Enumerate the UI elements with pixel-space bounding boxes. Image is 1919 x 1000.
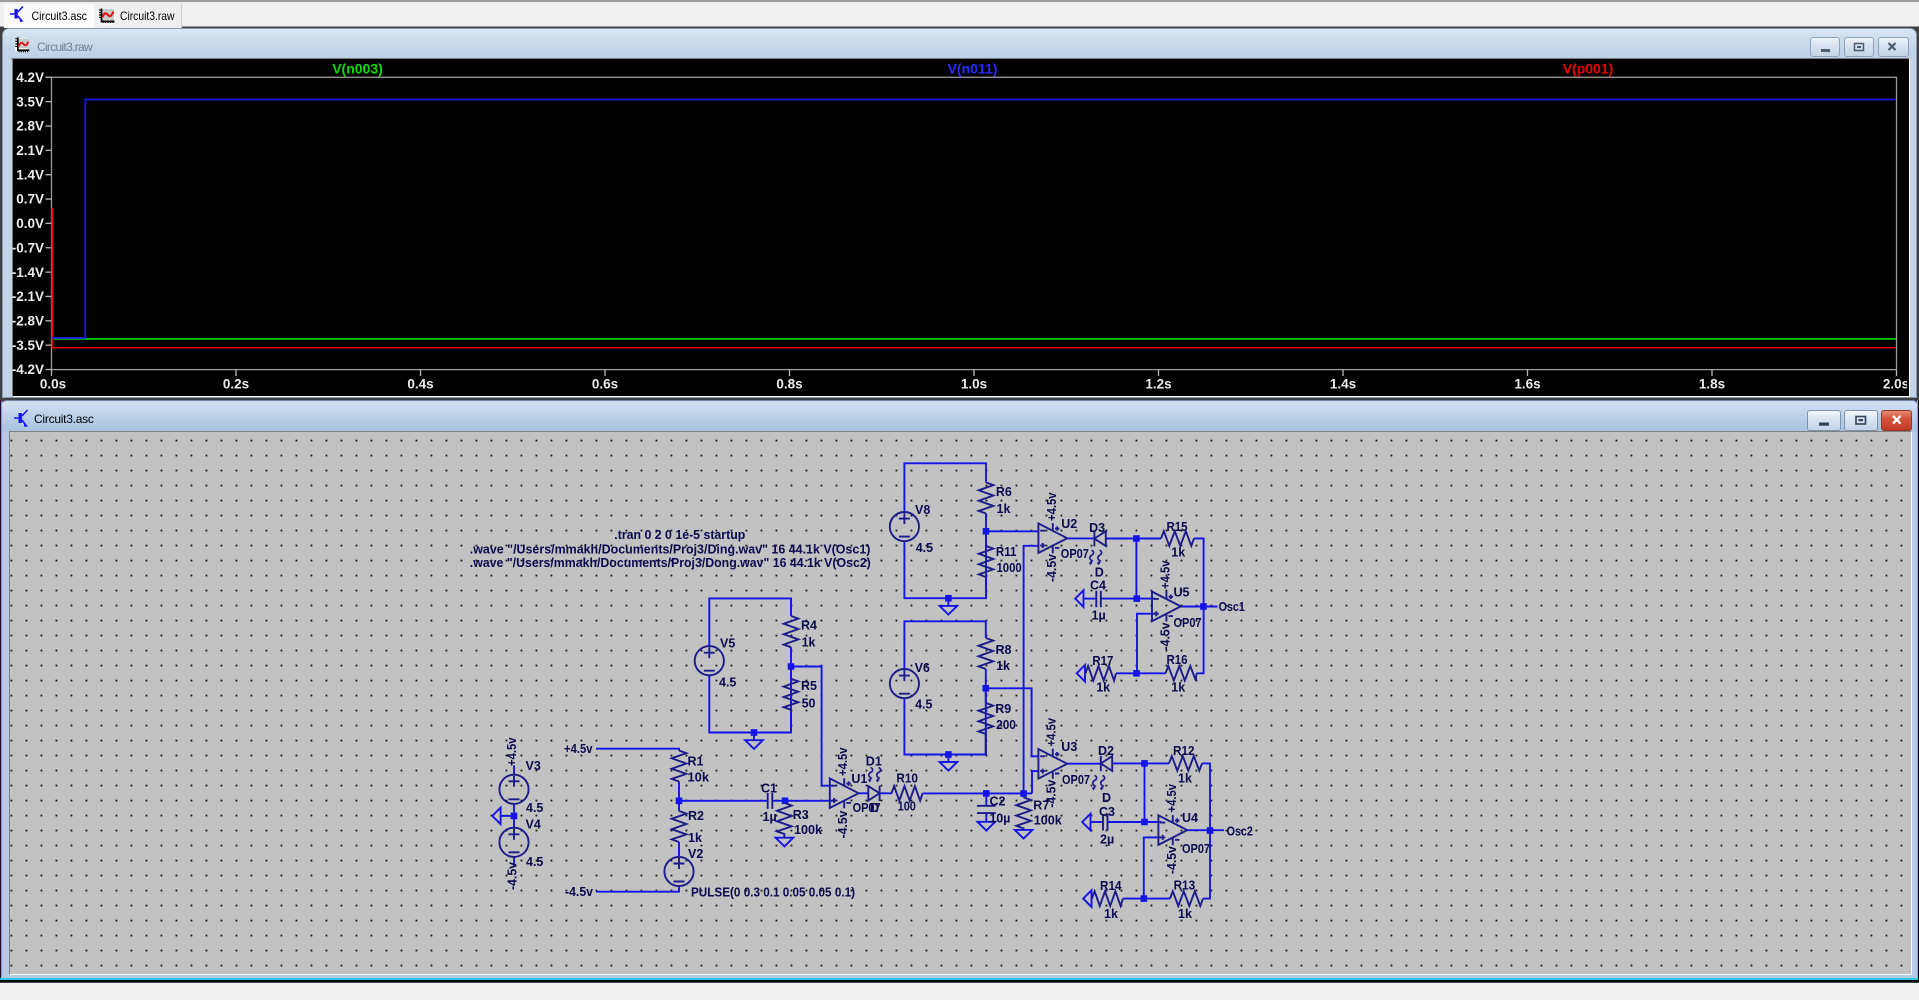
svg-text:-4.5v: -4.5v [1165, 846, 1179, 874]
voltage source V4 [499, 828, 528, 857]
svg-text:R17: R17 [1092, 654, 1113, 668]
diode D3 indicator arrows [1089, 550, 1101, 565]
svg-text:C1: C1 [761, 782, 777, 796]
svg-text:1k: 1k [1171, 546, 1185, 560]
svg-text:1.0s: 1.0s [961, 377, 987, 392]
y tick marks [46, 77, 52, 369]
svg-text:1k: 1k [1096, 681, 1110, 695]
svg-text:U3: U3 [1061, 740, 1077, 754]
svg-text:0.2s: 0.2s [223, 377, 249, 392]
node V5 gnd [751, 729, 758, 736]
wire V6 loop [904, 621, 985, 762]
wire V2 bottom to -4.5v label [596, 886, 679, 892]
wire main to U3 plus [1032, 771, 1038, 793]
svg-text:2µ: 2µ [1100, 833, 1114, 847]
svg-text:0.0V: 0.0V [16, 216, 44, 231]
wire R11 leads [985, 531, 987, 598]
wire D1 to R10 [880, 792, 892, 794]
wire V3 V4 junction [513, 804, 515, 828]
resistor R10 [892, 786, 923, 801]
wire U4 plus drop [1144, 837, 1161, 898]
wire node to C1 [679, 800, 768, 802]
svg-text:Circuit3.asc: Circuit3.asc [32, 9, 88, 23]
svg-text:V6: V6 [915, 661, 930, 675]
svg-text:-4.2V: -4.2V [12, 362, 44, 377]
svg-text:D: D [1095, 566, 1104, 580]
ground V8 loop [940, 606, 958, 615]
svg-text:1.4V: 1.4V [16, 167, 44, 182]
wire R6 R11 node to U2 minus [986, 530, 1038, 532]
svg-text:R16: R16 [1167, 653, 1188, 667]
resistor R16 [1166, 666, 1197, 681]
wire node B to U1 plus input [785, 800, 833, 802]
wire V4 bottom stub [513, 857, 515, 867]
port arrow R14 [1083, 890, 1091, 907]
node R17 R16 [1133, 670, 1140, 677]
tab2 waveform icon [99, 9, 115, 25]
svg-text:Circuit3.raw: Circuit3.raw [120, 9, 175, 23]
svg-text:R3: R3 [793, 808, 809, 822]
plot pane separator lines [11, 58, 1907, 60]
svg-text:V5: V5 [720, 637, 735, 651]
ground V6 loop [940, 762, 958, 771]
svg-text:R11: R11 [996, 545, 1017, 559]
wire main line [986, 792, 1032, 794]
svg-text:D1: D1 [866, 755, 882, 769]
resistor R17 [1086, 666, 1117, 681]
schematic SVG [9, 431, 1909, 972]
wire R9 leads [985, 688, 987, 754]
wire D2 node down to C3 node [1144, 763, 1146, 822]
resistor R15 [1161, 531, 1194, 546]
wire R8 R9 node to U3 minus [986, 688, 1039, 756]
svg-text:1k: 1k [997, 502, 1011, 516]
svg-text:V(p001): V(p001) [1563, 60, 1614, 76]
svg-text:-4.5v: -4.5v [506, 862, 520, 890]
capacitor C4 [1096, 591, 1101, 608]
svg-text:R9: R9 [995, 702, 1011, 716]
node V3 V4 port [511, 813, 518, 820]
wire R10 to main node [923, 792, 987, 794]
wire C4 arrow lead [1084, 598, 1097, 600]
resistor R4 [784, 616, 799, 647]
wire C2 top stub [985, 793, 987, 805]
svg-text:R5: R5 [801, 679, 817, 693]
svg-text:1k: 1k [996, 659, 1010, 673]
svg-text:.tran 0 2 0 1e-5 startup: .tran 0 2 0 1e-5 startup [614, 528, 745, 542]
svg-text:V3: V3 [526, 759, 541, 773]
svg-text:R8: R8 [996, 643, 1012, 657]
svg-text:1k: 1k [1178, 907, 1192, 921]
wire R2 leads [678, 801, 680, 857]
svg-text:OP07: OP07 [1182, 842, 1210, 856]
svg-text:V8: V8 [915, 503, 930, 517]
voltage source V6 [890, 669, 919, 698]
svg-text:+4.5v: +4.5v [1045, 718, 1059, 747]
node Osc2 out [1207, 827, 1214, 834]
wire R14 row [1092, 898, 1144, 900]
Circuit3.raw window [2, 28, 1917, 398]
node Osc1 out [1200, 603, 1207, 610]
resistor R7 [1016, 797, 1031, 830]
svg-text:1k: 1k [1104, 907, 1118, 921]
svg-text:U1: U1 [851, 772, 867, 786]
capacitor C1 [768, 793, 773, 809]
svg-text:4.5: 4.5 [719, 675, 736, 689]
op-amp U2 [1038, 523, 1067, 553]
wire V8 loop [904, 463, 986, 606]
node D2 R12 [1141, 760, 1148, 767]
svg-text:.wave "/Users/mmakh/Documents/: .wave "/Users/mmakh/Documents/Proj3/Dong… [470, 556, 871, 570]
svg-text:0.4s: 0.4s [407, 377, 433, 392]
svg-text:0.6s: 0.6s [592, 377, 618, 392]
wire C3 to U4 minus [1108, 821, 1162, 823]
port arrow C3 [1082, 814, 1090, 831]
node D3 R15 [1133, 535, 1140, 542]
svg-text:4.5: 4.5 [916, 541, 933, 555]
svg-text:4.2V: 4.2V [16, 70, 44, 85]
x tick marks [52, 370, 1897, 377]
svg-text:-4.5v: -4.5v [1158, 622, 1172, 650]
svg-text:-2.1V: -2.1V [12, 289, 44, 304]
wire D3 to node [1106, 538, 1137, 540]
svg-text:1k: 1k [1171, 681, 1185, 695]
svg-text:Osc1: Osc1 [1219, 600, 1245, 614]
wire C2 bottom stub [985, 813, 987, 822]
Circuit3.asc window [0, 400, 1919, 981]
wire R12 run and feedback drop [1145, 763, 1211, 830]
svg-text:D2: D2 [1098, 744, 1114, 758]
port arrow C4 [1075, 590, 1083, 607]
node R1 R2 C1 [676, 798, 683, 805]
wire U5 plus drop [1137, 614, 1155, 674]
asc title icon [14, 410, 28, 427]
svg-text:1.8s: 1.8s [1699, 377, 1725, 392]
svg-text:U4: U4 [1182, 811, 1198, 825]
port arrow R17 [1077, 665, 1085, 682]
svg-text:-4.5v: -4.5v [836, 810, 850, 838]
resistor R2 [672, 811, 687, 842]
svg-text:R12: R12 [1173, 744, 1195, 758]
svg-text:R6: R6 [996, 485, 1012, 499]
svg-text:0.7V: 0.7V [16, 192, 44, 207]
node R8 R9 [983, 685, 990, 692]
diode D2 [1101, 756, 1112, 771]
svg-text:V2: V2 [688, 847, 703, 861]
svg-text:50: 50 [802, 696, 816, 710]
resistor R6 [979, 483, 994, 514]
trace V(n011) blue [52, 100, 1897, 338]
resistor R5 [784, 679, 799, 710]
resistor R3 [777, 803, 792, 838]
resistor R9 [979, 703, 994, 755]
op-amp U4 [1158, 815, 1187, 845]
wire net +4.5v to R1 [596, 749, 679, 751]
y axis labels [12, 70, 44, 377]
svg-text:PULSE(0 0.3 0.1 0.05 0.05 0.1): PULSE(0 0.3 0.1 0.05 0.05 0.1) [691, 886, 855, 900]
svg-text:1µ: 1µ [1092, 608, 1106, 622]
wire R1 lower lead to node [678, 782, 680, 801]
wire U2 out to D3 [1067, 537, 1094, 539]
svg-text:10k: 10k [688, 771, 710, 785]
svg-text:+4.5v: +4.5v [564, 742, 593, 756]
op-amp U3 [1038, 749, 1067, 779]
wire C1 to node B [772, 800, 785, 802]
svg-text:1.6s: 1.6s [1514, 377, 1540, 392]
svg-text:R13: R13 [1174, 879, 1196, 893]
svg-text:+4.5v: +4.5v [836, 747, 850, 776]
svg-text:4.5: 4.5 [526, 801, 543, 815]
wire V5 loop [709, 598, 791, 740]
node R4 R5 [788, 663, 795, 670]
svg-text:R15: R15 [1167, 520, 1188, 534]
port arrow V3 V4 node [492, 808, 500, 825]
wire R4 R5 node to U1 minus [791, 667, 833, 786]
wire U1 out to D1 [859, 792, 869, 794]
svg-text:+4.5v: +4.5v [1165, 784, 1179, 813]
voltage source V5 [695, 646, 724, 675]
svg-text:R7: R7 [1033, 798, 1049, 812]
node C4 U5 [1133, 595, 1140, 602]
svg-text:+4.5v: +4.5v [1158, 560, 1172, 589]
wire V3 top stub [513, 766, 515, 775]
op-amp U5 [1152, 591, 1181, 621]
x axis labels [40, 377, 1909, 392]
svg-text:3.5V: 3.5V [16, 94, 44, 109]
diode D2 indicator arrows [1092, 776, 1104, 791]
svg-text:2.8V: 2.8V [16, 119, 44, 134]
wire R16 row and feedback riser [1137, 607, 1204, 674]
ground R3 [776, 838, 794, 847]
svg-text:1000: 1000 [997, 561, 1022, 575]
svg-text:D: D [870, 801, 879, 815]
svg-text:R1: R1 [688, 755, 704, 769]
svg-text:2.0s: 2.0s [1883, 377, 1907, 392]
ground C2 [978, 822, 996, 831]
node R7 riser main [1020, 790, 1027, 797]
active window accent borders [0, 978, 1919, 980]
wire R13 row and feedback riser [1144, 831, 1210, 899]
svg-text:-2.8V: -2.8V [12, 314, 44, 329]
svg-text:2.1V: 2.1V [16, 143, 44, 158]
svg-text:-3.5V: -3.5V [12, 338, 44, 353]
svg-text:-4.5v: -4.5v [565, 885, 593, 899]
svg-text:1.2s: 1.2s [1145, 377, 1171, 392]
wire U4 out to Osc2 [1187, 829, 1224, 831]
svg-text:.wave "/Users/mmakh/Documents/: .wave "/Users/mmakh/Documents/Proj3/Ding… [470, 543, 871, 557]
trace V(p001) red [52, 208, 1896, 348]
diode D3 [1094, 531, 1105, 546]
svg-text:C2: C2 [990, 795, 1006, 809]
tab1 LTspice icon [10, 7, 24, 23]
ground V5 loop [745, 740, 763, 749]
resistor R13 [1170, 891, 1203, 906]
node R10 C2 [983, 790, 990, 797]
wire junction to port arrow [501, 815, 514, 817]
capacitor C3 [1103, 814, 1108, 831]
diode D1 [868, 786, 879, 801]
svg-text:1k: 1k [688, 831, 702, 845]
trace V(n003) green [52, 338, 1897, 340]
svg-text:U5: U5 [1174, 586, 1190, 600]
svg-text:OP07: OP07 [1061, 547, 1089, 561]
voltage source V2 [664, 857, 693, 886]
svg-text:-0.7V: -0.7V [12, 240, 44, 255]
resistor R8 [979, 638, 994, 669]
svg-text:-1.4V: -1.4V [12, 265, 44, 280]
node R14 R13 [1141, 895, 1148, 902]
axis box [52, 77, 1897, 369]
wire U3 out to D2 [1067, 763, 1101, 765]
svg-text:R10: R10 [896, 771, 918, 785]
svg-text:R4: R4 [801, 618, 817, 632]
capacitor C2 [977, 806, 996, 813]
svg-text:100: 100 [898, 800, 916, 814]
voltage source V3 [499, 775, 528, 804]
svg-text:C3: C3 [1099, 805, 1115, 819]
svg-text:D3: D3 [1089, 521, 1105, 535]
diode D1 indicator arrows [868, 768, 880, 783]
resistor R14 [1092, 891, 1123, 906]
svg-text:OP07: OP07 [1062, 773, 1090, 787]
svg-text:1µ: 1µ [763, 810, 777, 824]
node C3 U4 [1141, 819, 1148, 826]
svg-text:C4: C4 [1090, 579, 1106, 593]
wire C4 to U5 minus [1101, 598, 1155, 600]
wire C3 arrow lead [1091, 821, 1103, 823]
svg-text:10µ: 10µ [990, 812, 1011, 826]
svg-text:1.4s: 1.4s [1330, 377, 1356, 392]
resistor R11 [979, 546, 994, 577]
wire riser to U2 plus [1024, 546, 1039, 794]
wire R15 run and feedback drop [1136, 539, 1203, 607]
svg-text:D: D [1102, 791, 1111, 805]
svg-text:200: 200 [996, 718, 1016, 732]
svg-text:V(n011): V(n011) [948, 60, 998, 76]
voltage source V8 [890, 512, 919, 541]
node V6 gnd [945, 751, 952, 758]
svg-text:V(n003): V(n003) [332, 60, 383, 76]
wire U5 out to Osc1 [1181, 606, 1218, 608]
svg-text:V4: V4 [526, 818, 541, 832]
svg-text:1k: 1k [1178, 771, 1192, 785]
svg-text:0.8s: 0.8s [776, 377, 802, 392]
svg-text:OP07: OP07 [1174, 616, 1202, 630]
ground R7 [1015, 830, 1033, 839]
svg-text:1k: 1k [802, 636, 816, 650]
wire R17 row [1085, 672, 1137, 674]
svg-text:100k: 100k [794, 823, 822, 837]
svg-text:4.5: 4.5 [915, 698, 932, 712]
svg-text:100k: 100k [1034, 814, 1062, 828]
resistor R1 [672, 751, 687, 782]
svg-text:+4.5v: +4.5v [505, 737, 519, 766]
svg-text:+4.5v: +4.5v [1045, 492, 1059, 521]
op-amp U1 [830, 778, 859, 808]
svg-text:Osc2: Osc2 [1227, 825, 1253, 839]
plot SVG [11, 57, 1907, 394]
node V8 gnd [945, 595, 952, 602]
wire R7 top lead [1023, 793, 1025, 797]
resistor R12 [1169, 756, 1202, 771]
svg-text:R14: R14 [1100, 879, 1122, 893]
wire D2 to node [1112, 762, 1144, 764]
raw title icon [15, 37, 29, 52]
svg-text:U2: U2 [1061, 517, 1077, 531]
wire R5 to bottom [790, 667, 792, 733]
svg-text:0.0s: 0.0s [40, 377, 66, 392]
svg-text:-4.5v: -4.5v [1045, 554, 1059, 582]
svg-text:R2: R2 [688, 809, 704, 823]
wire D3 node down to C4 node [1135, 539, 1137, 599]
node R6 R11 [983, 528, 990, 535]
node C1 R3 U1 [782, 798, 789, 805]
svg-text:4.5: 4.5 [526, 855, 543, 869]
